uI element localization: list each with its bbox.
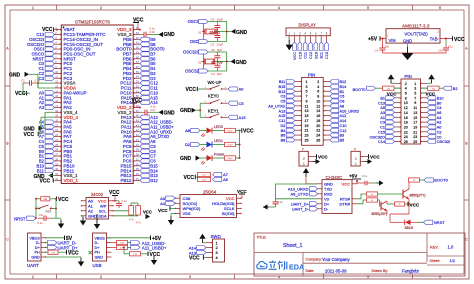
node A14 flag at SWD [189,245,206,250]
resistor R 1k on RTS [357,192,378,199]
node A9_UTXD flag at CH340C RXD [290,192,317,197]
svg-text:VOUT(TAB): VOUT(TAB) [404,32,428,37]
svg-text:2021-05-09: 2021-05-09 [325,268,347,273]
svg-text:25: 25 [305,138,309,142]
capacitor C16 with GND at U1 VSS_3 [140,26,175,38]
power flag VCC at 25Q64 VCC pin [237,189,247,198]
svg-text:23: 23 [413,135,417,139]
svg-text:OSC32I: OSC32I [437,140,451,144]
svg-text:A0: A0 [437,126,442,130]
diode D? 5819 schottky [399,220,418,231]
power flag VCC at U1 VDD_4 [24,117,55,138]
capacitor C 0.1u at 24C02 VCC [115,199,127,208]
node UART_D+ flag at CH340C [291,202,318,207]
svg-text:C6: C6 [340,95,345,99]
svg-text:2: 2 [405,82,407,86]
ground GND at 25Q64 VSS [168,214,175,226]
svg-text:D+: D+ [35,246,41,250]
wire V3 loop [276,184,318,199]
capacitor C9 20pF [211,17,224,31]
svg-text:A6: A6 [437,111,442,115]
svg-text:A9_UTXD: A9_UTXD [268,104,285,108]
svg-text:5: 5 [306,90,308,94]
capacitor C4 9pF [211,62,222,76]
svg-text:9: 9 [306,99,308,103]
power flag VCC pullup pair [183,175,197,182]
svg-text:GND: GND [88,213,97,218]
svg-text:19: 19 [305,124,309,128]
node A15 flag at KEY1 [228,115,246,120]
svg-text:10u: 10u [448,44,453,48]
node UART_D- flag at CH340C [292,207,318,212]
svg-text:6: 6 [317,90,319,94]
no-connect cross at USB PH [89,251,92,254]
svg-text:C17: C17 [151,108,157,112]
svg-text:21: 21 [413,130,417,134]
svg-text:OSC32O: OSC32O [183,50,201,55]
title block TITLE text [257,235,303,249]
transistor Q1 8550(2TY) [378,189,426,199]
svg-text:C8: C8 [39,213,43,217]
svg-text:USB: USB [93,263,102,268]
wire right side vertical and ground [55,198,64,229]
ground GND at 24C02 GND pin [80,216,86,226]
svg-text:20pF: 20pF [217,42,224,46]
svg-text:26: 26 [404,140,408,144]
svg-text:C: C [465,238,468,242]
svg-text:22: 22 [404,130,408,134]
svg-text:C3: C3 [380,121,385,125]
svg-text:4: 4 [405,87,407,91]
power flag VCC at NRST pullup [57,197,69,203]
svg-text:16: 16 [316,114,320,118]
svg-text:2: 2 [303,157,305,161]
chip U? 25Q64 SPI flash [180,190,237,218]
power flag VCC at 24C02 [109,190,120,202]
svg-text:VCC: VCC [454,37,465,43]
svg-text:B11: B11 [320,52,324,58]
svg-text:16: 16 [404,116,408,120]
svg-text:7: 7 [414,96,416,100]
node A13 flag at SWD [189,250,206,255]
svg-text:A14: A14 [340,119,347,123]
svg-text:C12: C12 [309,52,313,59]
connector SWD header [211,234,225,262]
push button RST [36,205,56,214]
svg-text:A3: A3 [380,111,385,115]
connector PIN header J2 [401,74,421,144]
svg-text:BOOT0: BOOT0 [353,88,366,92]
power flag VCC at U1 VDD_1 [40,178,55,184]
svg-text:PIN: PIN [308,73,315,78]
svg-text:C9: C9 [211,17,215,21]
svg-text:20: 20 [404,125,408,129]
svg-text:12: 12 [404,106,408,110]
svg-text:GND: GND [95,256,104,260]
svg-text:C13: C13 [325,52,329,59]
svg-text:EDA: EDA [289,262,304,271]
svg-text:17: 17 [305,119,309,123]
regulator U? AMS1117-3.3 [386,24,440,44]
svg-text:1: 1 [414,82,416,86]
svg-text:AMS1117-3.3: AMS1117-3.3 [402,24,430,29]
svg-text:VCC: VCC [237,189,247,194]
svg-text:STM32F103RCT6: STM32F103RCT6 [75,19,110,24]
svg-text:1002: 1002 [228,131,234,133]
svg-text:14: 14 [404,111,408,115]
svg-text:24: 24 [316,134,320,138]
svg-text:D+: D+ [95,246,101,250]
svg-text:VCC: VCC [68,250,79,256]
svg-text:VCC: VCC [387,92,397,97]
svg-text:B11: B11 [279,80,285,84]
svg-text:A0: A0 [239,87,245,92]
svg-text:+5V: +5V [368,36,378,42]
svg-text:7: 7 [306,95,308,99]
svg-text:A6: A6 [223,177,229,182]
svg-text:A10_URXD: A10_URXD [340,109,360,113]
svg-text:TITLE:: TITLE: [257,235,267,239]
node UART_D- flag [46,241,77,246]
svg-text:12: 12 [316,104,320,108]
svg-text:VCC: VCC [42,27,53,33]
power flag VCC at U1 VDD_2 [131,98,142,109]
push button KEY0 [205,94,228,105]
power flag VCC at U1 VDD_3 [133,18,144,31]
svg-text:B4: B4 [281,129,286,133]
svg-text:0.1u: 0.1u [35,78,41,82]
svg-text:26: 26 [316,138,320,142]
svg-text:C3: C3 [211,42,215,46]
svg-text:10: 10 [404,101,408,105]
node A11_USBD+ flag [131,245,167,250]
ground GND at J2 row1 left [388,74,395,83]
svg-text:20pF: 20pF [217,17,224,21]
svg-text:9pF: 9pF [217,72,222,76]
svg-text:2: 2 [317,80,319,84]
power flag VCC at J2 row3 right [421,92,436,97]
power flag 5V at USB VBUS [107,236,162,243]
svg-text:WK-UP: WK-UP [208,80,222,85]
svg-text:14: 14 [316,109,320,113]
svg-text:11: 11 [413,106,417,110]
resistor R 10k B2 right [421,86,458,91]
svg-text:B3: B3 [340,134,345,138]
svg-text:A15: A15 [279,114,286,118]
svg-text:C13: C13 [378,101,385,105]
svg-text:2: 2 [355,157,357,161]
chip U? 24C02 EEPROM [86,192,109,219]
capacitor C17 with GND at U1 VSS_2 [140,104,175,116]
svg-text:C3: C3 [280,95,285,99]
svg-text:C4: C4 [211,72,215,76]
svg-text:PB12: PB12 [120,178,132,183]
svg-text:VCC: VCC [189,255,200,261]
svg-text:A5: A5 [380,106,385,110]
ground GND at AMS1117 [383,43,447,60]
svg-text:9pF: 9pF [217,48,222,52]
svg-text:VCC: VCC [243,129,254,135]
svg-text:REV:: REV: [430,246,439,250]
resistor R 10k to A6 [198,177,229,182]
power flag VCC at 25Q64 WP [158,206,175,213]
push button WK-UP [205,80,228,90]
svg-text:1/1: 1/1 [450,258,456,263]
connector PIN header J1 [302,73,324,146]
svg-text:1: 1 [32,6,34,10]
svg-text:B11: B11 [37,168,45,173]
svg-text:B14: B14 [340,85,347,89]
power flag 5V at CH340C VCC [349,174,361,184]
svg-text:DISPLAY: DISPLAY [299,23,317,28]
svg-text:Sheet:: Sheet: [430,259,440,263]
svg-text:GND: GND [180,108,192,114]
svg-text:18: 18 [316,119,320,123]
svg-text:C5: C5 [211,48,215,52]
svg-text:UART_D-: UART_D- [292,207,310,212]
svg-text:C10: C10 [298,52,302,59]
U1 right net flags [140,37,175,183]
PIN header J1 pins and flags [268,80,359,143]
svg-text:2: 2 [100,6,102,10]
svg-text:VIN: VIN [389,38,396,43]
svg-text:Date:: Date: [306,269,315,273]
svg-text:VCC: VCC [58,197,69,203]
svg-text:VCC: VCC [143,209,152,214]
svg-text:VCC: VCC [150,252,161,258]
LED D? red with resistor R LED0 net A8 [185,125,240,137]
power flag VCC at SWD pin4 [189,255,206,261]
svg-text:NRST: NRST [434,220,445,225]
connector P1 2-pin header [299,148,328,166]
svg-text:9: 9 [414,101,416,105]
svg-text:24: 24 [404,135,408,139]
resistor R 1k to VCC [387,202,420,208]
ground GND right of X1 [217,29,247,36]
node A12_USBD- flag [131,241,167,246]
svg-text:B2: B2 [453,87,458,91]
svg-text:OSC32I: OSC32I [185,69,200,74]
svg-text:KEY0: KEY0 [208,94,219,99]
svg-text:PH: PH [35,251,41,255]
node OSCO flag [188,19,208,24]
capacitor C10 10u at VOUT [438,39,453,54]
svg-text:22: 22 [316,129,320,133]
ground GND at CH340C GND pin [303,168,317,184]
node A10_URXD flag at CH340C TXD [288,187,318,192]
power flag VCC at WK-UP key [185,87,204,93]
svg-text:D-: D- [324,206,329,211]
connector P2 2-pin header [351,148,380,166]
24C02 pins [81,198,114,218]
op-amp U1 STM32F103RCT6 MCU body [61,19,133,183]
LED power indicator with resistor from GND [180,152,241,164]
svg-text:VCC: VCC [410,202,420,207]
power flag 5V at AMS1117 VIN [368,36,386,42]
svg-text:VCC: VCC [342,181,351,186]
svg-text:0.1u: 0.1u [278,200,284,204]
resistor R 4.7k pullups on SCL SDA [114,203,142,225]
svg-text:C1: C1 [21,78,25,82]
svg-text:20: 20 [316,124,320,128]
svg-text:C8: C8 [340,100,345,104]
resistor R 1k to BOOT0 flag [409,178,449,189]
svg-text:B5: B5 [340,139,345,143]
ground GND at U1 VSS_1 [34,173,55,180]
svg-text:C15: C15 [378,130,385,134]
resistor R 1.5k at UART PH [46,250,79,256]
ground GND at DISPLAY pin1 [286,36,293,51]
wires transistor outputs [387,199,410,222]
capacitor C1 0.1u at VDDA [21,78,41,85]
ground GND stub near 24C02 [94,214,100,229]
svg-text:6: 6 [405,92,407,96]
title block [254,233,465,276]
svg-text:Power: Power [214,152,225,156]
SWD pins 1-4 [206,240,219,260]
svg-text:KEY1: KEY1 [208,108,219,113]
svg-text:13: 13 [305,109,309,113]
svg-text:8: 8 [405,96,407,100]
svg-text:VCC: VCC [426,92,436,97]
svg-text:8050(J3Y): 8050(J3Y) [372,212,388,216]
resistor R 10k to A7 [198,172,229,177]
svg-text:5: 5 [367,6,369,10]
svg-text:A9_UTXD: A9_UTXD [290,192,308,197]
svg-text:5819: 5819 [405,226,413,230]
wire NRST net vertical [35,198,37,219]
svg-text:D2: D2 [280,124,285,128]
capacitor C8 0.1u on NRST [38,213,57,225]
svg-text:OSC32O: OSC32O [370,135,385,139]
capacitor C9 10u at VIN [375,39,390,54]
svg-text:C: C [6,238,9,242]
svg-text:GND: GND [164,110,176,116]
svg-text:2: 2 [100,275,102,279]
svg-text:C16: C16 [150,30,156,34]
svg-text:B10: B10 [314,52,318,59]
node OSCI flag [190,39,227,44]
node NRST flag [14,216,36,221]
capacitor 0.1u at CH340C V3 [263,199,283,210]
node C5 flag at KEY0 [228,101,244,106]
transistor Q2 8050(J3Y) [372,200,388,216]
CH340C pins [317,181,357,211]
svg-text:VCC: VCC [318,155,328,160]
svg-text:VCC: VCC [158,208,168,213]
svg-text:B12: B12 [150,178,158,183]
svg-text:SDA: SDA [98,213,107,218]
svg-text:B6: B6 [281,134,286,138]
push button KEY1 [205,108,228,118]
svg-text:13: 13 [413,111,417,115]
svg-text:24C02: 24C02 [91,192,104,197]
resistor R 22R on USB D- [112,241,131,245]
resistor R 1.5k pullup on USB D+ [123,246,160,258]
svg-text:1: 1 [355,162,357,166]
svg-text:VSS: VSS [183,211,191,216]
svg-text:C10: C10 [340,124,347,128]
svg-text:UART: UART [27,263,39,268]
svg-text:22R: 22R [120,243,124,245]
svg-text:A12: A12 [340,114,347,118]
node A4 flag at 25Q64 SO [160,201,175,206]
svg-text:15: 15 [413,116,417,120]
svg-text:10u: 10u [385,44,390,48]
svg-text:3: 3 [306,85,308,89]
svg-text:PH: PH [95,251,101,255]
25Q64 pins [175,196,242,216]
svg-text:NRST: NRST [14,216,26,221]
svg-text:A1: A1 [380,116,385,120]
svg-text:1: 1 [32,275,34,279]
svg-text:GND: GND [164,32,176,38]
LED D2 blue with resistor LED1 [185,139,241,151]
svg-text:VCC: VCC [370,155,380,160]
resistor R1 10k pull-up on NRST [36,197,56,201]
svg-text:10: 10 [316,99,320,103]
U1 pin names and pins [54,26,140,183]
svg-text:VCC: VCC [15,91,26,97]
svg-text:B13: B13 [279,90,286,94]
svg-text:6: 6 [439,6,441,10]
svg-text:D2: D2 [185,142,191,147]
svg-text:VCC: VCC [24,132,35,138]
svg-text:C9: C9 [375,49,379,53]
svg-text:Company:: Company: [306,258,322,262]
svg-text:3: 3 [189,6,191,10]
svg-text:B8: B8 [281,139,286,143]
svg-text:19: 19 [413,125,417,129]
svg-text:GND: GND [180,156,192,162]
svg-text:1002: 1002 [228,158,234,160]
svg-text:4.7k: 4.7k [129,219,134,222]
svg-text:SI(IO0): SI(IO0) [222,211,236,216]
svg-text:SWD: SWD [211,234,221,239]
svg-text:VCC: VCC [183,175,194,181]
node NRST flag right [418,220,445,225]
connector USB [93,233,107,268]
U1 left net flags [27,32,54,173]
svg-text:GND: GND [9,72,21,78]
svg-text:C14: C14 [378,140,385,144]
svg-text:0.1u: 0.1u [362,174,368,178]
svg-text:A8: A8 [340,104,345,108]
node OSC32I flag [185,69,227,74]
svg-text:3: 3 [414,87,416,91]
DISPLAY pins and flags [288,31,328,60]
connector DISPLAY header [286,23,330,36]
power flag VCC at U1 VDDA [15,83,54,97]
crystal X1 8MHz [198,23,220,40]
svg-text:VCC: VCC [293,52,297,60]
svg-text:C2: C2 [437,130,442,134]
svg-text:17: 17 [413,121,417,125]
svg-text:A4: A4 [437,116,442,120]
svg-text:11: 11 [305,104,309,108]
wire X1 top rail [208,22,227,42]
title block Company [306,257,351,262]
node UART_D+ flag [46,245,78,250]
UART pins [29,236,46,259]
svg-text:GND: GND [236,60,248,66]
svg-text:VBUS: VBUS [95,236,106,240]
capacitor C5 9pF [211,48,222,62]
svg-text:4.7k: 4.7k [136,222,141,225]
svg-text:C10: C10 [438,49,443,53]
svg-text:23: 23 [305,134,309,138]
title block Sheet [430,258,456,263]
